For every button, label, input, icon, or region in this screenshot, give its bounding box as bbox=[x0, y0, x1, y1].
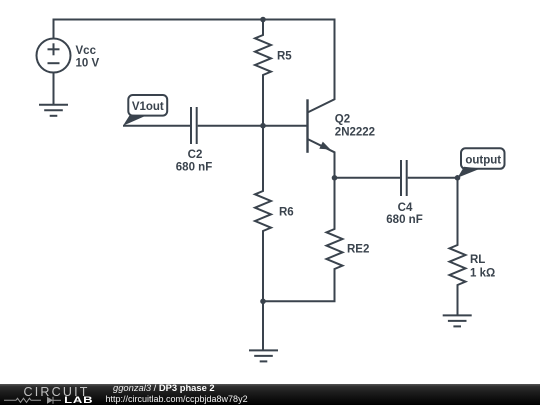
wire top rail bbox=[54, 20, 335, 113]
capacitor C2 bbox=[191, 107, 197, 144]
footer url bbox=[106, 395, 248, 403]
label RL 1 kOhm bbox=[470, 254, 495, 280]
resistor RE2 bbox=[327, 178, 343, 301]
svg-text:680 nF: 680 nF bbox=[176, 162, 212, 174]
node base junction bbox=[260, 123, 266, 129]
net flag V1out bbox=[123, 95, 167, 126]
resistor RL bbox=[450, 178, 466, 316]
voltage source V1 Vcc bbox=[37, 39, 71, 105]
svg-text:Vcc: Vcc bbox=[76, 45, 97, 57]
svg-text:R5: R5 bbox=[277, 51, 292, 63]
footer bar bbox=[0, 384, 540, 405]
svg-text:1 kΩ: 1 kΩ bbox=[470, 268, 495, 280]
node top-rail R5 junction bbox=[260, 17, 266, 23]
net flag output bbox=[458, 148, 505, 178]
svg-text:C4: C4 bbox=[398, 202, 413, 214]
wire base right of C2 bbox=[198, 125, 308, 127]
node emitter junction bbox=[332, 175, 338, 181]
ground under Vcc bbox=[39, 105, 68, 116]
svg-text:V1out: V1out bbox=[132, 101, 164, 113]
wire bottom between R6 and RE2 bbox=[263, 300, 335, 302]
svg-text:output: output bbox=[465, 154, 501, 166]
label Q2 2N2222 bbox=[335, 113, 375, 138]
resistor R6 bbox=[255, 126, 271, 302]
svg-text:10 V: 10 V bbox=[76, 58, 100, 70]
wire C4 to output node bbox=[408, 177, 458, 179]
ground under R6 bbox=[249, 301, 278, 361]
node bottom junction bbox=[260, 299, 266, 305]
svg-text:C2: C2 bbox=[188, 149, 203, 161]
svg-text:Q2: Q2 bbox=[335, 113, 350, 125]
svg-text:RL: RL bbox=[470, 254, 485, 266]
transistor Q2 2N2222 bbox=[308, 99, 335, 178]
wire base left of C2 bbox=[123, 125, 190, 127]
svg-text:2N2222: 2N2222 bbox=[335, 127, 375, 139]
svg-text:R6: R6 bbox=[279, 207, 294, 219]
ground under RL bbox=[443, 315, 472, 326]
CircuitLab logo bbox=[0, 384, 110, 405]
label C4 680 nF bbox=[386, 202, 422, 226]
svg-text:RE2: RE2 bbox=[347, 244, 369, 256]
footer credit text bbox=[113, 384, 215, 392]
capacitor C4 bbox=[401, 160, 407, 196]
label C2 680 nF bbox=[176, 149, 212, 174]
node output junction bbox=[455, 175, 461, 181]
wire emitter to C4 bbox=[335, 177, 401, 179]
svg-text:LAB: LAB bbox=[64, 396, 93, 405]
svg-text:680 nF: 680 nF bbox=[386, 214, 422, 226]
resistor R5 bbox=[255, 20, 271, 126]
label Vcc 10 V bbox=[76, 45, 100, 70]
